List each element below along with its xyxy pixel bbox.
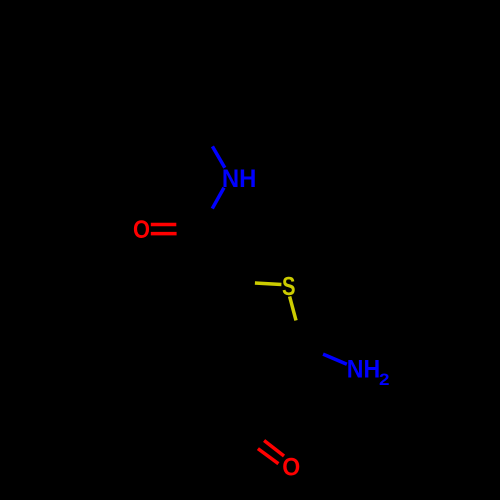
wire: bond ring C5 to amino N (blue half) [323,354,347,364]
svg-text:S: S [282,271,296,301]
svg-text:NH: NH [347,355,380,383]
wire: aldehyde C=O double bond upper line (red half) [264,441,284,457]
wire: bond cyclohexyl C1 to amide N (blue half) [212,146,224,167]
wire: C=O double bond upper line (red half) [151,223,177,227]
wire: aldehyde C=O double bond lower line (red half) [258,449,279,464]
wire: C=O double bond lower line (red half) [151,232,177,236]
svg-text:O: O [133,216,150,244]
svg-text:2: 2 [379,370,390,389]
wire: bond amide N to carbonyl C (blue half) [212,188,224,209]
svg-text:NH: NH [222,165,257,193]
wire: bond S to ring C5 (yellow half) [290,296,296,320]
wire: bond ring C2 to S (yellow half) [255,283,282,285]
svg-text:O: O [282,454,300,482]
